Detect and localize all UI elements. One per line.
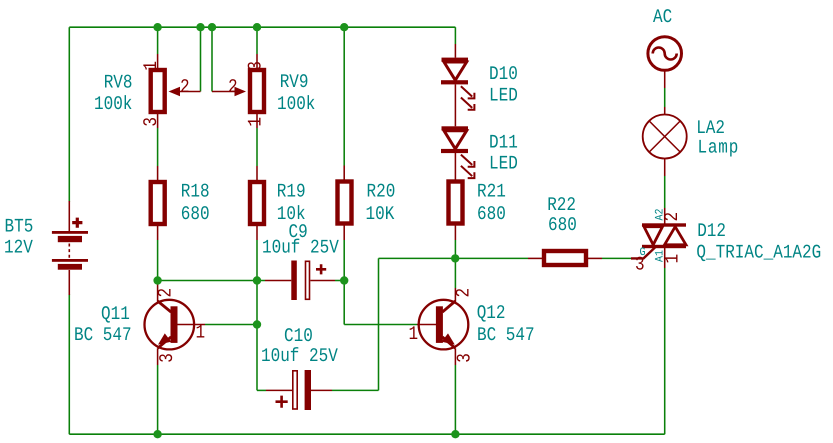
svg-text:AC: AC bbox=[653, 6, 672, 28]
svg-text:Q_TRIAC_A1A2G: Q_TRIAC_A1A2G bbox=[696, 242, 821, 264]
svg-text:Lamp: Lamp bbox=[698, 137, 740, 159]
svg-text:D10: D10 bbox=[489, 63, 518, 85]
svg-text:RV9: RV9 bbox=[280, 71, 309, 93]
svg-text:A1: A1 bbox=[654, 250, 667, 262]
svg-text:R18: R18 bbox=[181, 181, 210, 203]
svg-text:BC 547: BC 547 bbox=[74, 324, 132, 346]
svg-text:BC 547: BC 547 bbox=[477, 324, 535, 346]
svg-text:1: 1 bbox=[245, 117, 267, 127]
svg-text:10uf 25V: 10uf 25V bbox=[261, 345, 338, 367]
svg-text:100k: 100k bbox=[94, 93, 132, 115]
svg-text:BT5: BT5 bbox=[5, 216, 34, 238]
svg-text:680: 680 bbox=[181, 203, 210, 225]
svg-text:R21: R21 bbox=[477, 181, 506, 203]
svg-text:D12: D12 bbox=[697, 220, 726, 242]
svg-text:680: 680 bbox=[477, 203, 506, 225]
svg-text:R22: R22 bbox=[547, 194, 576, 216]
svg-text:10K: 10K bbox=[366, 203, 395, 225]
svg-text:2: 2 bbox=[453, 288, 475, 298]
svg-text:1: 1 bbox=[140, 61, 162, 71]
svg-text:D11: D11 bbox=[489, 132, 518, 154]
svg-text:R20: R20 bbox=[367, 181, 396, 203]
svg-text:3: 3 bbox=[454, 353, 476, 363]
svg-text:3: 3 bbox=[156, 353, 178, 363]
svg-text:2: 2 bbox=[180, 77, 190, 99]
svg-text:12V: 12V bbox=[4, 237, 33, 259]
svg-text:LED: LED bbox=[489, 153, 518, 175]
svg-text:A2: A2 bbox=[654, 208, 667, 220]
svg-text:1: 1 bbox=[409, 323, 419, 345]
svg-text:1: 1 bbox=[196, 322, 206, 344]
svg-text:Q12: Q12 bbox=[477, 302, 506, 324]
svg-text:680: 680 bbox=[548, 214, 577, 236]
svg-text:R19: R19 bbox=[277, 181, 306, 203]
svg-text:G: G bbox=[640, 247, 646, 260]
svg-text:LA2: LA2 bbox=[696, 117, 725, 139]
svg-text:C10: C10 bbox=[284, 325, 313, 347]
svg-text:2: 2 bbox=[228, 77, 238, 99]
svg-text:100k: 100k bbox=[277, 93, 315, 115]
svg-text:10uf 25V: 10uf 25V bbox=[262, 237, 339, 259]
svg-text:RV8: RV8 bbox=[104, 72, 133, 94]
svg-text:3: 3 bbox=[245, 61, 267, 71]
svg-text:Q11: Q11 bbox=[101, 303, 130, 325]
svg-text:3: 3 bbox=[140, 117, 162, 127]
svg-text:LED: LED bbox=[489, 85, 518, 107]
svg-text:2: 2 bbox=[155, 288, 177, 298]
